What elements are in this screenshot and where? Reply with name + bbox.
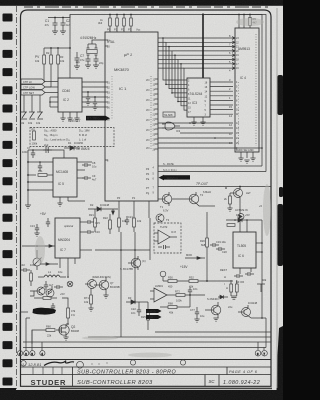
signal flag CTP SET [21, 90, 58, 95]
ground for C4 [93, 65, 99, 68]
node [116, 14, 118, 16]
ground IC2 c [74, 118, 79, 121]
wire RT-TRIG inverse label [86, 116, 105, 121]
wire row6 [158, 147, 262, 149]
scan border bottom band [0, 390, 283, 400]
scan border top band [0, 0, 283, 6]
ground Q2 [63, 337, 68, 340]
IC2 left pin stubs [50, 97, 58, 107]
ground IC2 b [67, 118, 72, 121]
ground for C7 [74, 66, 80, 69]
capacitor C14 above IC7 [46, 218, 50, 227]
inductor L1 [38, 275, 66, 277]
capacitor C1 [53, 18, 58, 32]
transistor Q2 mosfet [56, 324, 69, 337]
resistor R5 in legend [33, 131, 36, 140]
page torn right edge line [276, 8, 278, 388]
resistor R30 [230, 280, 233, 296]
wire right return vertical A [203, 15, 262, 167]
resistor R61 [34, 297, 57, 300]
node [57, 47, 59, 49]
wire +5V row above IC6 [226, 219, 262, 221]
wire Q2 drain up [66, 323, 68, 325]
capacitor C9 [82, 176, 91, 180]
ground C13 [34, 233, 39, 236]
IC4 counter-timer [235, 28, 259, 152]
wire vert mid [206, 212, 208, 281]
pin grid dotted inside IC4 [255, 34, 257, 146]
capacitor C8 [82, 163, 91, 167]
IC5 bottom pin [60, 197, 85, 203]
ground for C3 [85, 65, 91, 68]
transistor T1 [158, 192, 172, 206]
transistor T7 [238, 305, 251, 318]
resistor R72 [174, 294, 205, 297]
node [261, 242, 263, 244]
trimmer RV1 [21, 95, 27, 119]
wire gate rail [32, 330, 46, 344]
node [225, 187, 227, 189]
wire arrow junction [40, 263, 58, 266]
title block row divider 2 [21, 374, 271, 376]
node [189, 122, 191, 124]
diode D2 [88, 207, 118, 211]
resistor R6 pullup [109, 15, 112, 33]
ground IC3 b [200, 122, 205, 125]
capacitor C22 [137, 302, 141, 316]
pin grid dotted inside uP1 [150, 76, 152, 150]
connector pin 4 [40, 351, 45, 357]
resistor R1 [43, 48, 46, 78]
signal inverse label SERVO [164, 175, 190, 179]
capacitor C21 [125, 216, 129, 225]
capacitor C12 [38, 162, 42, 171]
ground IC4 b [244, 160, 249, 163]
wire long drop A [120, 232, 122, 337]
diode LED D6 [238, 200, 244, 220]
resistor R12 [30, 270, 33, 286]
IC3 buffer 74LS244 [187, 78, 210, 117]
wire +5V feed down to resistor rail [69, 15, 71, 79]
wire long drop C [149, 218, 151, 260]
revision circle mid2 [180, 360, 185, 365]
transistor T9 [46, 286, 54, 297]
node rail joints [27, 161, 29, 163]
wire bus bottom 3 [23, 341, 271, 343]
wire top power rail [48, 15, 256, 18]
title block PAGE cell [226, 367, 228, 375]
capacitor C28 [51, 303, 55, 311]
node [69, 47, 71, 49]
ground for C1 [52, 31, 58, 34]
resistor R23 [118, 218, 121, 232]
crystal Q1 [87, 44, 98, 59]
transistor T4 [128, 256, 141, 270]
connector circle X1 [67, 281, 73, 287]
title block row divider 1 [21, 366, 271, 368]
connector pin 7 [262, 350, 268, 356]
wire uP1 lower bus to IC4 row1 [158, 122, 233, 124]
node arrow left [159, 175, 165, 181]
capacitor C17 [44, 281, 48, 290]
scribble blackout [33, 308, 57, 315]
revision dot marks [92, 364, 93, 365]
uP1 left pin ticks [105, 40, 108, 160]
page torn top edge dashes [24, 6, 272, 8]
label +5V arrow [112, 209, 115, 215]
wire IC6 top feeds [240, 220, 247, 232]
wire +5 feed [62, 298, 68, 300]
capacitor C32 [21, 268, 30, 272]
IC7 bottom pins [60, 258, 75, 277]
wire bus L5 [178, 60, 228, 102]
wire bus L6 [181, 64, 228, 106]
capacitor C15 [88, 220, 94, 224]
node [261, 147, 263, 149]
wire S(L)/D(L) row [158, 171, 266, 173]
transistor T6 darlington b [94, 277, 109, 293]
scan border bottom-left corner [0, 388, 16, 400]
uP1 right pin numbers column [155, 79, 158, 149]
node on rail [54, 17, 56, 19]
ground IC4 c [250, 158, 255, 161]
resistor R3 [57, 48, 60, 78]
wire top into IC5 [28, 150, 64, 158]
IC5 converter [53, 158, 77, 197]
uP1 left inside pin numbers [107, 40, 110, 163]
title block revision cells [33, 367, 62, 375]
capacitor C16 [88, 230, 94, 234]
scan smudge blobs [35, 18, 271, 358]
node [67, 276, 69, 278]
smudge under title block [60, 388, 272, 390]
node arrow RT-TRIG into uP1 [105, 116, 110, 122]
ground for C2 [60, 31, 66, 34]
wire bus L0 IC3 to IC4 [163, 38, 228, 80]
wire stub T right [257, 284, 265, 292]
ground left rail [25, 205, 31, 208]
scan blob right edge upper [278, 75, 284, 115]
wire row5 [158, 142, 233, 144]
wire left rail [27, 150, 29, 205]
title block SC cell [204, 375, 206, 387]
capacitor C6 on bus [93, 97, 97, 107]
resistor R71 [90, 288, 93, 308]
wire IC4 vcc drops [239, 15, 244, 29]
signal flag CTP HI [21, 79, 58, 84]
node bus joints [165, 84, 167, 86]
diode D3 [126, 300, 142, 304]
ground IC5 [57, 203, 62, 206]
wire bus bottom 2 [88, 336, 271, 338]
transistor T3 [156, 214, 164, 222]
connector circle X2 [160, 271, 166, 281]
node [87, 91, 89, 93]
title block vertical logo cell [72, 367, 74, 386]
wire fb drop [189, 295, 191, 307]
resistor R2 [50, 48, 53, 78]
resistor R21 [94, 209, 97, 232]
op-amp U4 [150, 288, 174, 302]
wire IC6 right pins [256, 243, 262, 252]
capacitor C20 [216, 247, 225, 251]
capacitor C18 in osc box [158, 245, 170, 249]
signal flag S/P [146, 315, 162, 319]
wire right drops [258, 318, 266, 350]
wire cross horizontal [95, 249, 150, 251]
connector pin 3 [30, 351, 35, 357]
transistor T8 [34, 287, 45, 295]
wire crystal to XTAL pins [92, 40, 105, 44]
resistor R20 on vert [206, 238, 209, 247]
wire uP1 P0 drop [118, 201, 120, 218]
ground R71 [88, 308, 93, 311]
capacitor C77 [195, 307, 199, 319]
wire bus L3 [172, 51, 228, 93]
capacitor C3 [86, 59, 91, 65]
revision circle mark [21, 361, 26, 366]
wire P2 drop [148, 201, 150, 218]
resistor R9 pullup [130, 15, 133, 33]
diode D5 [218, 295, 228, 299]
wire right rail drop [261, 220, 263, 318]
capacitor C7 [75, 52, 80, 66]
node riser joints [162, 37, 164, 39]
resistor R25 [147, 302, 150, 330]
capacitor C24 [245, 272, 254, 276]
node [49, 101, 51, 103]
IC3 inside pin numbers [188, 80, 208, 117]
resistor R11 into IC5 [38, 174, 53, 177]
node [189, 294, 191, 296]
node clock [202, 13, 204, 15]
node [36, 245, 38, 247]
wire left drops to connector [20, 312, 42, 351]
node [67, 323, 69, 325]
wire bottom row mid [163, 280, 233, 282]
connector pin 6 [255, 350, 261, 356]
revision circle on line [77, 361, 84, 368]
node [130, 14, 132, 16]
op-amp U1 microprocessor uP1 MK3870 [105, 32, 158, 201]
ground T6 [103, 293, 108, 298]
wire bus bottom 1 [155, 331, 271, 333]
wire IC5 right pins [77, 162, 92, 178]
resistor R33 [229, 193, 232, 208]
uP1 right inside pin numbers [153, 79, 156, 195]
binder hole row [3, 14, 13, 386]
scan blob right edge lower wedge [277, 326, 284, 391]
node IC4 rail [238, 14, 240, 16]
IC6 regulator TL505 [233, 232, 256, 268]
page torn left edge dash line [16, 6, 18, 390]
node [94, 96, 96, 98]
IC3 right pins to IC4 [210, 82, 233, 114]
diode D4 [238, 218, 242, 222]
resistor R8 pullup [123, 15, 126, 33]
trimmer RV4 [33, 250, 42, 270]
legend note box [30, 128, 114, 147]
scan blob right edge small [279, 187, 283, 197]
IC2 logic CD4053 [58, 78, 82, 112]
wire bus L7 [184, 68, 228, 110]
IC4 inside pin numbers [236, 37, 239, 150]
capacitor C2 [61, 18, 66, 32]
capacitor C25 [54, 285, 63, 289]
node [39, 161, 41, 163]
resistor R50 [168, 280, 177, 283]
wires R trio down to IC2 top [44, 78, 58, 87]
wire uP1 P1 drop [133, 201, 135, 218]
connector pin 2 [24, 351, 29, 357]
node on rail [62, 17, 64, 19]
connector pin 1 [17, 351, 22, 357]
node [123, 14, 125, 16]
wire right return vertical B [256, 15, 266, 172]
op-amp U3 TL072 [154, 230, 177, 244]
oscillator dashed box [154, 223, 181, 253]
wire row3 [180, 132, 233, 134]
resistor R10 at IC4 top [249, 15, 252, 29]
transistor T5 darlington a [85, 280, 97, 289]
ground for C6 [92, 107, 97, 110]
IC4 left pin arrows upper [228, 37, 235, 70]
wire TP-OUT row [158, 186, 271, 188]
capacitor C19 [210, 243, 219, 247]
resistor R22 [109, 214, 112, 234]
wire bus L1 [166, 42, 228, 84]
wire uP1 stubs into bus nest [158, 38, 184, 68]
wire row4 [158, 137, 233, 139]
resistor R68 [160, 306, 190, 309]
ground T10 [213, 318, 218, 321]
diode D1 [64, 146, 80, 150]
capacitor C5 on bus [86, 92, 90, 102]
resistor R74 [67, 300, 70, 324]
wire row2 [158, 127, 233, 129]
gate U2 74LS32 [162, 112, 180, 130]
wire bus bottom 4 [23, 347, 266, 349]
signal flag CTP LOW [21, 85, 58, 90]
capacitor C10 [31, 150, 35, 158]
resistor R52 [189, 280, 198, 283]
capacitor C13 [35, 224, 39, 233]
transistor T10 [205, 302, 221, 318]
wire stub feeds [20, 312, 30, 318]
wire horiz join [142, 301, 148, 303]
title block top line [21, 359, 271, 361]
signal flag S-MOD [146, 309, 162, 313]
trimmer RV3 [37, 95, 43, 119]
node [32, 149, 34, 151]
IC5 left pin wires from rail [28, 162, 53, 190]
wire bus L4 [175, 55, 228, 97]
resistor R60 gate [46, 329, 55, 332]
ground R33 [227, 208, 232, 211]
IC3 bottom pins [194, 117, 203, 122]
node [50, 47, 52, 49]
wire long drop B [134, 232, 136, 302]
ground for C5 [85, 102, 90, 105]
capacitor C11 inline [43, 147, 52, 153]
ground IC4 a [238, 158, 243, 161]
ground C77 [194, 319, 199, 322]
wire T7 out [251, 317, 266, 319]
transistor T2 [172, 192, 199, 206]
node [246, 219, 248, 221]
resistor R7 pullup [116, 15, 119, 33]
handwritten signature [44, 361, 74, 366]
wire resistor trio top rail [44, 47, 70, 49]
node [239, 186, 241, 188]
node [120, 249, 122, 251]
resistor R24 [133, 218, 136, 232]
wire S-RATE row [158, 165, 262, 167]
resistor R31 [235, 280, 238, 296]
scan noise overlay [0, 0, 1, 1]
ground IC2 a [60, 118, 65, 121]
IC4 bottom pins [241, 152, 253, 158]
node [134, 301, 136, 303]
node pullup rail [109, 14, 111, 16]
revision circle mid [130, 360, 135, 365]
wire base rail [30, 291, 34, 296]
wire IC7 right pins [80, 222, 92, 250]
resistor R32 [227, 224, 235, 227]
capacitor C4 [94, 59, 99, 65]
node [206, 280, 208, 282]
wire arrow into IC7 [22, 245, 55, 248]
IC7 delay optional [55, 218, 80, 258]
wire clock bold drop [202, 15, 204, 79]
IC2 right pins to uP1 [82, 82, 105, 107]
wire MOD arrow [185, 257, 205, 260]
drawing frame [21, 10, 272, 386]
capacitor C23 [234, 274, 243, 278]
transistor T11 active-in [230, 187, 243, 201]
IC6 bottom pins [240, 268, 251, 274]
ground IC3 a [191, 122, 196, 125]
wire bus L2 [169, 47, 228, 89]
capacitor C26 [188, 287, 192, 295]
scan blob right edge middle [278, 204, 284, 266]
ground R30 R31 [231, 296, 237, 299]
wire T2 out right [199, 205, 215, 207]
IC2 bottom pins to grounds [63, 112, 77, 118]
trimmer RV2 [29, 95, 35, 119]
